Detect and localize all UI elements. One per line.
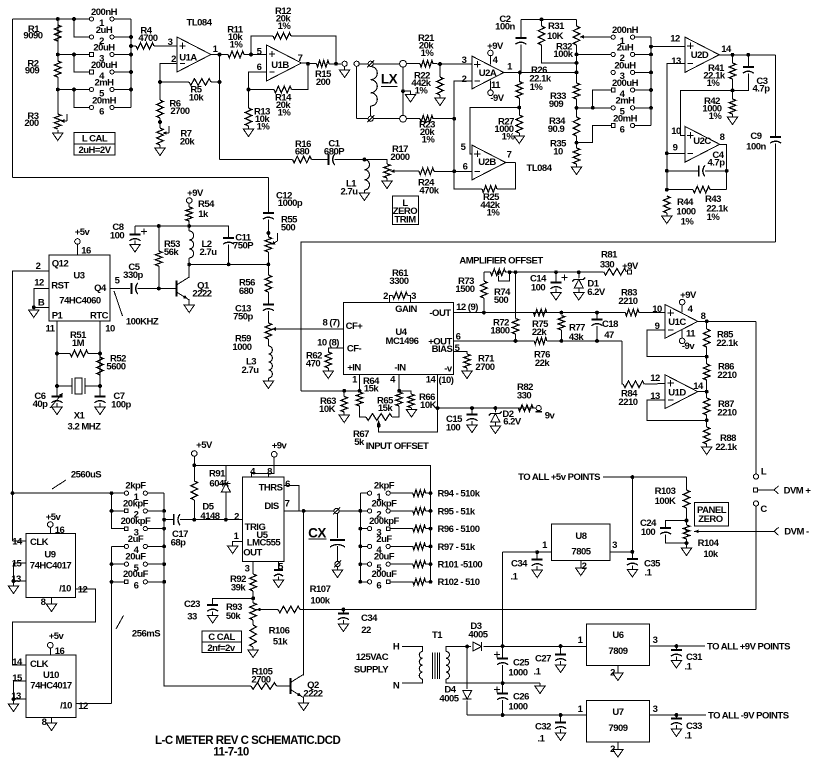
svg-text:7: 7 bbox=[298, 53, 303, 64]
wire U1D out bbox=[698, 391, 707, 393]
node r5link b bbox=[72, 88, 76, 92]
resistor R65 bbox=[396, 392, 403, 406]
ground U10 pins bbox=[8, 704, 18, 712]
svg-text:U1C: U1C bbox=[668, 317, 686, 328]
svg-text:22.1k: 22.1k bbox=[715, 442, 737, 453]
svg-text:OUT: OUT bbox=[243, 547, 262, 558]
wire -out line bbox=[453, 312, 625, 314]
wire L2 bot bbox=[188, 258, 190, 265]
node chain row45 bbox=[575, 106, 579, 110]
ground U8 bbox=[576, 568, 586, 576]
crystal X1 bbox=[57, 385, 72, 387]
wire long return bbox=[301, 242, 776, 391]
svg-text:U8: U8 bbox=[575, 531, 586, 542]
node pin9 bus bbox=[665, 151, 669, 155]
wire R87 stems bbox=[706, 392, 708, 398]
wire R25 right bbox=[497, 162, 515, 189]
resistor R41 bbox=[729, 63, 736, 79]
wire C26 stem bbox=[502, 683, 504, 693]
svg-text:3: 3 bbox=[245, 563, 250, 574]
terminal DVM- arrow bbox=[774, 527, 779, 535]
node bus1 row2 bbox=[110, 509, 114, 513]
svg-text:+9V: +9V bbox=[622, 261, 639, 272]
node swC c17 tap bbox=[162, 518, 166, 522]
wire D2 stem bbox=[494, 408, 496, 412]
svg-text:12: 12 bbox=[670, 33, 680, 44]
svg-text:330: 330 bbox=[517, 390, 532, 401]
box zero trim bbox=[393, 196, 419, 225]
resistor R12 bbox=[273, 33, 291, 40]
ground R66 bbox=[411, 408, 413, 410]
svg-text:74HC4017: 74HC4017 bbox=[30, 560, 72, 571]
ground R13 bbox=[248, 126, 250, 129]
svg-text:12: 12 bbox=[78, 701, 88, 712]
svg-text:6: 6 bbox=[285, 479, 290, 490]
line 256ms callout bbox=[116, 616, 124, 630]
U2A supply pins bbox=[490, 55, 492, 57]
node S1a bus bbox=[129, 53, 133, 57]
wire top rail right bbox=[521, 18, 577, 20]
resistor R75 bbox=[533, 309, 546, 316]
wire U8 in bbox=[503, 551, 552, 553]
node C27 top bbox=[559, 644, 563, 648]
wire C35 stem bbox=[631, 552, 633, 559]
node S1b bus bbox=[649, 106, 653, 110]
svg-text:14: 14 bbox=[693, 381, 704, 392]
resistor R27 bbox=[516, 115, 523, 133]
ground R44 bbox=[666, 213, 668, 216]
capacitor C6 arrow bbox=[50, 394, 62, 408]
resistor R52 bbox=[97, 357, 104, 375]
svg-text:2uF: 2uF bbox=[376, 534, 392, 545]
svg-text:22k: 22k bbox=[532, 327, 548, 338]
terminal U5 +9v bbox=[271, 452, 277, 458]
post C bbox=[753, 501, 758, 506]
svg-text:R101 -5100: R101 -5100 bbox=[438, 560, 483, 571]
wire U2C out bbox=[720, 144, 727, 189]
node top rail b bbox=[72, 17, 76, 21]
node pin14 bbox=[436, 406, 440, 410]
svg-text:2: 2 bbox=[234, 511, 239, 522]
node x1 left bbox=[55, 384, 59, 388]
node bus2 row6 bbox=[110, 580, 114, 584]
svg-text:U3: U3 bbox=[73, 270, 84, 281]
wire R84 to U1D bbox=[644, 383, 665, 386]
svg-text:3: 3 bbox=[612, 540, 617, 551]
svg-text:11: 11 bbox=[45, 323, 55, 334]
node rail R31 bbox=[540, 18, 544, 22]
trimmer R104 bbox=[683, 525, 690, 539]
ground C23 bbox=[212, 612, 214, 616]
node R63 top bbox=[342, 389, 346, 393]
ground U9 pin8 bbox=[46, 604, 56, 612]
node row5 jog bbox=[591, 106, 595, 110]
svg-text:CX: CX bbox=[308, 525, 326, 540]
wire out to row3 bbox=[520, 72, 577, 74]
wire U5 pin6 bbox=[284, 486, 299, 511]
node R53 bot bbox=[157, 287, 161, 291]
resistor R107 bbox=[278, 606, 300, 613]
wire U2D out bbox=[719, 54, 775, 56]
resistor R56 bbox=[265, 275, 272, 292]
wire U1C out bbox=[698, 320, 756, 322]
node C11 bot bbox=[227, 263, 231, 267]
svg-text:2uH=2V: 2uH=2V bbox=[78, 145, 111, 156]
svg-text:U2A: U2A bbox=[479, 68, 497, 79]
node R5 left bbox=[158, 80, 162, 84]
svg-text:200uF: 200uF bbox=[372, 569, 398, 580]
op-amp U1A bbox=[177, 37, 211, 72]
svg-text:15k: 15k bbox=[378, 403, 394, 414]
wire U3 pin11 bbox=[56, 321, 58, 386]
transformer T1 primary bbox=[419, 651, 422, 679]
resistor R103 bbox=[683, 490, 690, 508]
resistor R35 bbox=[573, 148, 580, 164]
ground R88 bbox=[702, 447, 712, 455]
wire R88 stems bbox=[706, 420, 708, 427]
IC U9 74HC4017 bbox=[26, 534, 76, 598]
resistor R23 bbox=[420, 115, 433, 122]
svg-text:10 (8): 10 (8) bbox=[317, 337, 339, 348]
post CX top bbox=[334, 508, 339, 513]
wire R31 bot bbox=[542, 45, 577, 63]
svg-text:100: 100 bbox=[641, 527, 656, 538]
svg-text:14: 14 bbox=[426, 374, 437, 385]
wire U5 vcc bbox=[252, 457, 275, 477]
wire R56-C13 bbox=[267, 292, 269, 305]
svg-text:T1: T1 bbox=[432, 630, 443, 641]
ground kelvin bbox=[405, 95, 415, 103]
svg-text:TRIM: TRIM bbox=[394, 214, 416, 225]
capacitor C1 bbox=[328, 154, 330, 165]
wire U2A pin11 stub bbox=[490, 81, 492, 90]
resistor R77 bbox=[558, 316, 565, 331]
svg-text:7809: 7809 bbox=[608, 646, 627, 657]
svg-text:-9V: -9V bbox=[490, 93, 504, 104]
svg-text:9090: 9090 bbox=[23, 30, 42, 41]
node pin1 bbox=[358, 389, 362, 393]
label C8 plus bbox=[141, 231, 147, 233]
node swC bus bbox=[162, 562, 166, 566]
resistor R91 bbox=[191, 481, 198, 500]
wire L2 to R55 bbox=[189, 263, 268, 265]
trimmer R59 bbox=[265, 323, 272, 339]
svg-text:2560uS: 2560uS bbox=[71, 469, 101, 480]
wire N bbox=[402, 679, 423, 683]
wire swC left bus lower2 bbox=[111, 546, 113, 703]
wire U1C fb bbox=[647, 330, 707, 357]
inductor L1 bbox=[364, 160, 369, 191]
transistor Q2 2222 bbox=[290, 678, 292, 694]
label LX underline bbox=[381, 86, 398, 88]
svg-text:4148: 4148 bbox=[200, 511, 219, 522]
svg-text:R107: R107 bbox=[310, 584, 331, 595]
wire R103 top bbox=[686, 477, 688, 490]
svg-text:10: 10 bbox=[652, 304, 662, 315]
resistor R84 bbox=[623, 381, 644, 388]
svg-text:1%: 1% bbox=[278, 21, 292, 32]
wire post down bbox=[356, 66, 358, 118]
wire C4 left bbox=[667, 170, 699, 172]
ground C14 bbox=[555, 289, 557, 293]
trimmer R32 bbox=[573, 26, 580, 45]
svg-text:12: 12 bbox=[78, 584, 88, 595]
svg-text:22k: 22k bbox=[535, 358, 551, 369]
post L bbox=[753, 474, 758, 479]
svg-text:+IN: +IN bbox=[347, 363, 361, 374]
svg-text:7805: 7805 bbox=[571, 546, 591, 557]
svg-text:256mS: 256mS bbox=[132, 628, 160, 639]
resistor R15 bbox=[317, 60, 330, 67]
svg-text:Q12: Q12 bbox=[52, 258, 69, 269]
trimmer R7 wiper bbox=[168, 126, 170, 133]
resistor R73 bbox=[481, 281, 488, 298]
svg-text:1000: 1000 bbox=[508, 667, 527, 678]
svg-text:RTC: RTC bbox=[90, 310, 109, 321]
svg-text:3: 3 bbox=[462, 55, 467, 66]
wire bus x74 seg1 bbox=[74, 19, 92, 37]
wire swC right bus bbox=[163, 493, 165, 686]
ground R35 bbox=[576, 164, 578, 167]
ground D1 bbox=[578, 289, 580, 293]
wire Q1 base bbox=[159, 288, 177, 290]
ground CX bbox=[337, 567, 339, 571]
resistor R62 bbox=[325, 352, 332, 368]
svg-text:200: 200 bbox=[316, 77, 331, 88]
resistor R105 bbox=[251, 683, 277, 690]
node S1b bus bbox=[649, 88, 653, 92]
node U1A out bbox=[218, 53, 222, 57]
node R67 wiper bbox=[377, 424, 381, 428]
wire R94 lead bbox=[426, 492, 431, 494]
wire U8 unreg riser bbox=[502, 552, 504, 646]
wire R91 vcc bbox=[193, 456, 195, 465]
svg-text:-v: -v bbox=[444, 363, 453, 374]
svg-text:(10): (10) bbox=[439, 375, 454, 386]
wire bias rail bbox=[135, 225, 229, 227]
wire U3 pin5 bbox=[110, 288, 130, 290]
node mid rail bbox=[501, 681, 505, 685]
svg-text:C27: C27 bbox=[535, 653, 551, 664]
node C35 bbox=[631, 550, 635, 554]
wire U1A pin2 bbox=[160, 63, 177, 82]
capacitor C6 bbox=[52, 396, 63, 398]
wire C24 top bbox=[666, 521, 687, 529]
capacitor C12 bbox=[263, 212, 274, 214]
resistor R94 bbox=[413, 490, 426, 497]
op-amp U1B bbox=[267, 45, 302, 81]
capacitor C11 bbox=[223, 237, 234, 239]
wire R6 stem bbox=[159, 82, 161, 100]
ground R3 bbox=[57, 130, 59, 133]
node C24 bot bbox=[685, 541, 689, 545]
wire bias top bbox=[301, 390, 360, 392]
ground R42 bbox=[732, 114, 734, 117]
wire R4 to U1A pin3 bbox=[154, 45, 177, 47]
wire LX bottom bbox=[357, 118, 369, 120]
wire bias stub bbox=[453, 352, 467, 355]
svg-text:TL084: TL084 bbox=[527, 163, 553, 174]
node D5 bot bbox=[224, 518, 228, 522]
wire swCX right bus bbox=[430, 465, 432, 582]
resistor R5 bbox=[189, 79, 211, 86]
trimmer R93 bbox=[250, 603, 257, 620]
ground C7 bbox=[99, 403, 101, 407]
label C25 plus bbox=[494, 654, 500, 656]
wire C31 stem bbox=[675, 646, 677, 650]
svg-text:680P: 680P bbox=[324, 146, 345, 157]
wire U8 gnd stub bbox=[580, 560, 582, 568]
svg-text:11: 11 bbox=[491, 80, 501, 91]
wire bus x74 seg2 bbox=[74, 55, 92, 73]
svg-text:-IN: -IN bbox=[394, 363, 406, 374]
svg-text:U9: U9 bbox=[44, 549, 55, 560]
svg-text:INPUT OFFSET: INPUT OFFSET bbox=[366, 441, 429, 452]
node U9 p13 gnd bbox=[12, 579, 16, 583]
svg-text:8: 8 bbox=[42, 717, 47, 728]
svg-text:CF-: CF- bbox=[347, 343, 362, 354]
wire swC row6 stub bbox=[112, 581, 125, 583]
wire C11 bot bbox=[228, 244, 230, 264]
svg-text:1%: 1% bbox=[421, 48, 435, 59]
wire R5 line bbox=[160, 81, 189, 83]
diode D3 4005 bbox=[473, 642, 482, 651]
resistor R95 bbox=[413, 508, 426, 515]
wire R95 lead bbox=[426, 510, 431, 512]
node C33 bbox=[675, 713, 679, 717]
wire top rail to switch bbox=[13, 18, 92, 20]
wire pin1 stub bbox=[359, 374, 361, 392]
wire bus to R4 bbox=[131, 45, 136, 47]
svg-text:2.7u: 2.7u bbox=[340, 186, 358, 197]
wire Q2 emitter bbox=[303, 697, 304, 703]
transformer T1 core bbox=[432, 653, 434, 679]
svg-text:2210: 2210 bbox=[618, 296, 637, 307]
node chain r31 bbox=[575, 61, 579, 65]
terminal +9V offset bbox=[628, 270, 632, 274]
svg-text:2210: 2210 bbox=[717, 407, 736, 418]
ground R104 bbox=[681, 548, 691, 556]
resistor R26 bbox=[516, 82, 523, 99]
label CX underline bbox=[309, 538, 327, 540]
svg-text:16: 16 bbox=[81, 245, 91, 256]
svg-text:500: 500 bbox=[494, 295, 509, 306]
wire R34 bot bbox=[576, 136, 578, 148]
wire +out line bbox=[453, 340, 534, 342]
svg-text:7: 7 bbox=[507, 149, 512, 160]
wire C13-R59 bbox=[267, 311, 269, 323]
wire C post down bbox=[755, 506, 757, 610]
node swC bus bbox=[162, 509, 166, 513]
wire R26 top stem bbox=[518, 73, 521, 82]
wire R67 to -v bbox=[379, 408, 438, 432]
svg-text:50k: 50k bbox=[226, 611, 242, 622]
wire D3 right bbox=[484, 646, 587, 648]
op-amp U2C bbox=[685, 126, 720, 162]
diode D4 4005 bbox=[463, 691, 472, 700]
ground R63 bbox=[343, 412, 345, 415]
capacitor C8 bbox=[130, 234, 141, 236]
svg-text:10: 10 bbox=[105, 323, 115, 334]
node c11 line bbox=[267, 263, 271, 267]
svg-text:6.2V: 6.2V bbox=[587, 287, 606, 298]
post L drive bbox=[342, 61, 347, 66]
switch S2a C-range contacts bbox=[124, 491, 128, 495]
svg-text:500: 500 bbox=[281, 222, 296, 233]
wire sec bot bbox=[446, 679, 540, 683]
svg-text:1%: 1% bbox=[487, 207, 501, 218]
svg-text:10K: 10K bbox=[420, 400, 437, 411]
node swC bus bbox=[162, 545, 166, 549]
wire C25 bot bbox=[502, 665, 504, 683]
svg-text:909: 909 bbox=[25, 65, 40, 76]
svg-text:470k: 470k bbox=[419, 185, 439, 196]
capacitor C26 bbox=[497, 693, 508, 695]
svg-text:N: N bbox=[393, 680, 400, 691]
svg-text:TO ALL -9V POINTS: TO ALL -9V POINTS bbox=[708, 710, 789, 721]
svg-text:100K: 100K bbox=[655, 496, 676, 507]
ground C8 bbox=[134, 241, 136, 245]
wire U9 p15 p13 bbox=[14, 563, 27, 581]
IC U8 7805 bbox=[552, 524, 611, 560]
svg-text:200: 200 bbox=[24, 118, 39, 129]
capacitor C9 bbox=[770, 136, 781, 138]
transformer T1 secondary bbox=[446, 651, 449, 679]
svg-text:2222: 2222 bbox=[192, 288, 211, 299]
svg-text:9: 9 bbox=[673, 142, 678, 153]
ground R106 bbox=[252, 647, 254, 650]
svg-text:11: 11 bbox=[686, 328, 696, 339]
switch S2b CX contacts bbox=[368, 491, 372, 495]
resistor R76 bbox=[534, 338, 547, 345]
svg-text:C34: C34 bbox=[511, 558, 528, 569]
wire U9 pin12 out bbox=[12, 589, 95, 665]
wire row2 stub bbox=[577, 53, 614, 55]
capacitor C14 bbox=[551, 282, 562, 284]
svg-text:16: 16 bbox=[55, 525, 65, 536]
wire R54 stem bbox=[188, 203, 190, 207]
node U1B out bbox=[306, 62, 310, 66]
svg-text:8: 8 bbox=[720, 132, 725, 143]
wire U6 out bbox=[650, 645, 705, 647]
svg-text:2: 2 bbox=[36, 261, 41, 272]
trimmer R74 wiper bbox=[497, 272, 501, 276]
wire pin4 to R66 bbox=[399, 391, 411, 394]
node x1 right bbox=[98, 384, 102, 388]
resistor R13 bbox=[245, 108, 252, 126]
svg-text:680: 680 bbox=[295, 146, 310, 157]
wire C34a stem bbox=[536, 552, 538, 559]
svg-text:22.1k: 22.1k bbox=[716, 338, 738, 349]
ground U5 pin5 bbox=[278, 577, 280, 581]
svg-text:200kpF: 200kpF bbox=[369, 516, 399, 527]
ground Q2 bbox=[298, 703, 308, 711]
svg-text:C34: C34 bbox=[361, 613, 378, 624]
node R55 top bbox=[267, 231, 271, 235]
svg-text:.1: .1 bbox=[685, 661, 693, 672]
resistor R63 bbox=[341, 397, 348, 413]
svg-text:1M: 1M bbox=[72, 338, 85, 349]
wire U1B pin6 bbox=[249, 72, 267, 90]
wire +out to R84 bbox=[622, 341, 623, 384]
svg-text:20kpF: 20kpF bbox=[123, 498, 149, 509]
ground U9 pins bbox=[8, 586, 18, 594]
resistor R16 bbox=[293, 156, 312, 163]
svg-text:5k: 5k bbox=[354, 437, 365, 448]
svg-text:2kpF: 2kpF bbox=[125, 481, 146, 492]
wire U2A pin2 bbox=[454, 81, 472, 172]
svg-text:R106: R106 bbox=[269, 625, 290, 636]
